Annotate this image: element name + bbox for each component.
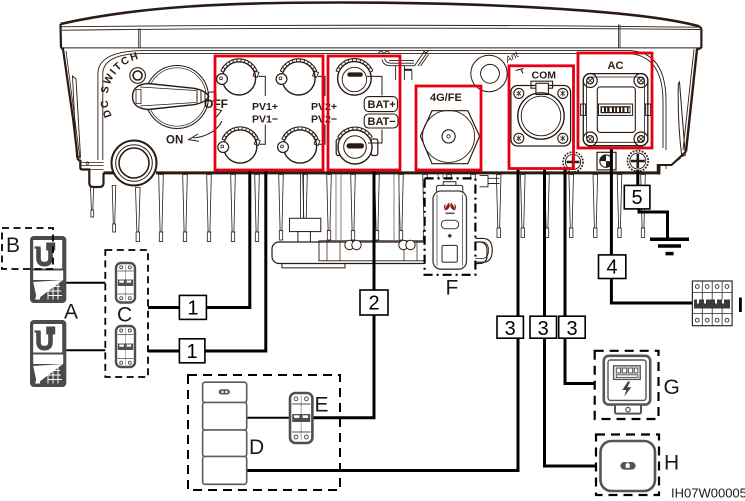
PV connector PV1+: [217, 59, 259, 95]
dc switch: [98, 50, 228, 147]
PV module + optimizer icon 1 (A): [30, 236, 66, 303]
svg-text:C: C: [117, 304, 132, 327]
svg-text:COM: COM: [532, 70, 557, 82]
letters: [6, 234, 680, 475]
bottom left boss: [112, 141, 157, 186]
wall hanger recess: [378, 51, 429, 81]
BAT- connector: [336, 127, 378, 164]
heat sink fins: [91, 175, 646, 242]
svg-text:G: G: [664, 376, 680, 399]
svg-text:3: 3: [566, 318, 577, 340]
wire ground: [636, 170, 639, 186]
svg-text:IH07W00005: IH07W00005: [671, 486, 745, 501]
PV module + optimizer icon 2 (A): [30, 320, 66, 387]
knockout circle: [471, 55, 507, 91]
svg-text:2: 2: [368, 293, 379, 315]
left side wall: [61, 48, 78, 160]
wire ac: [611, 148, 692, 303]
svg-text:A: A: [64, 301, 78, 324]
PV connector PV2+: [276, 59, 318, 95]
band vertical seams: [139, 29, 141, 48]
wire bat: [312, 170, 374, 417]
mounting bracket: [272, 174, 487, 268]
PV connector PV2-: [278, 127, 320, 163]
left edge of band: [59, 24, 62, 48]
svg-text:PV1+: PV1+: [252, 101, 278, 113]
svg-text:ON: ON: [166, 135, 183, 147]
ground symbol: [650, 239, 689, 253]
svg-text:PV1−: PV1−: [252, 114, 278, 126]
wire pv2: [148, 170, 266, 351]
svg-text:BAT−: BAT−: [368, 116, 396, 128]
svg-text:1: 1: [187, 341, 198, 363]
C dashed box: [105, 250, 148, 377]
right wall blade: [678, 82, 685, 157]
dashed boxes + icons: [2, 176, 659, 495]
H dashed box: [596, 435, 659, 496]
power meter G: [604, 356, 650, 414]
DC breaker C2: [116, 326, 135, 367]
panel top-right corner arcs: [630, 51, 666, 150]
svg-text:E: E: [315, 394, 329, 417]
icon wires (thinner): [66, 283, 289, 418]
B dashed box: [2, 228, 53, 269]
svg-text:5: 5: [632, 187, 643, 209]
battery breaker E: [290, 393, 312, 443]
panel top-left corner arcs: [98, 51, 630, 74]
ground screws row: [563, 151, 648, 172]
left ledge details: [80, 163, 103, 170]
G dashed box: [595, 351, 659, 419]
red boxes: [215, 53, 652, 170]
BAT+ connector: [336, 59, 373, 96]
F dash-dot box (drawn over fins): [425, 178, 476, 274]
svg-text:4: 4: [607, 257, 618, 279]
panel left double line: [98, 74, 103, 160]
svg-text:H: H: [664, 452, 679, 475]
svg-text:3: 3: [538, 318, 549, 340]
svg-text:B: B: [6, 234, 20, 257]
wire com3: [565, 169, 595, 384]
D dashed box: [188, 375, 340, 490]
PV connector PV1-: [218, 127, 260, 163]
numbered boxes: [179, 185, 649, 362]
wire com2: [545, 169, 597, 467]
body fill: [61, 3, 702, 188]
management system H: [601, 441, 656, 491]
svg-text:BAT+: BAT+: [368, 99, 396, 111]
battery stack D: [203, 382, 247, 484]
screw: [130, 68, 146, 84]
COM connector: [511, 81, 571, 146]
bracket right ear behind F: [475, 176, 499, 263]
band seam lines: [61, 25, 701, 27]
inverter body: [61, 3, 702, 188]
svg-text:D: D: [249, 436, 264, 459]
svg-text:3: 3: [505, 318, 516, 340]
right corner of band: [699, 26, 701, 48]
bat labels + brackets: [367, 76, 382, 143]
breaker I: [692, 281, 732, 326]
svg-text:F: F: [446, 277, 459, 300]
bottom edge (thick): [104, 171, 114, 174]
label I: [739, 298, 742, 313]
svg-text:4G/FE: 4G/FE: [430, 92, 462, 104]
handle: [133, 84, 209, 110]
left foot outline: [78, 160, 104, 187]
svg-text:AC: AC: [608, 60, 624, 72]
left blade fin: [73, 76, 81, 157]
4G/FE cable gland: [420, 110, 479, 163]
right wall bottom slant details: [659, 158, 681, 174]
right side wall: [686, 48, 701, 152]
AC connector: [581, 74, 651, 147]
top cover curve: [61, 3, 700, 27]
antenna mark: [503, 49, 524, 73]
connectors: [217, 49, 651, 172]
Smart Dongle F: [433, 182, 467, 270]
svg-text:1: 1: [187, 298, 198, 320]
DC breaker C1: [116, 263, 135, 303]
pv labels + brackets: [259, 76, 326, 144]
wire com1: [247, 169, 518, 471]
wire pv1: [148, 170, 250, 307]
